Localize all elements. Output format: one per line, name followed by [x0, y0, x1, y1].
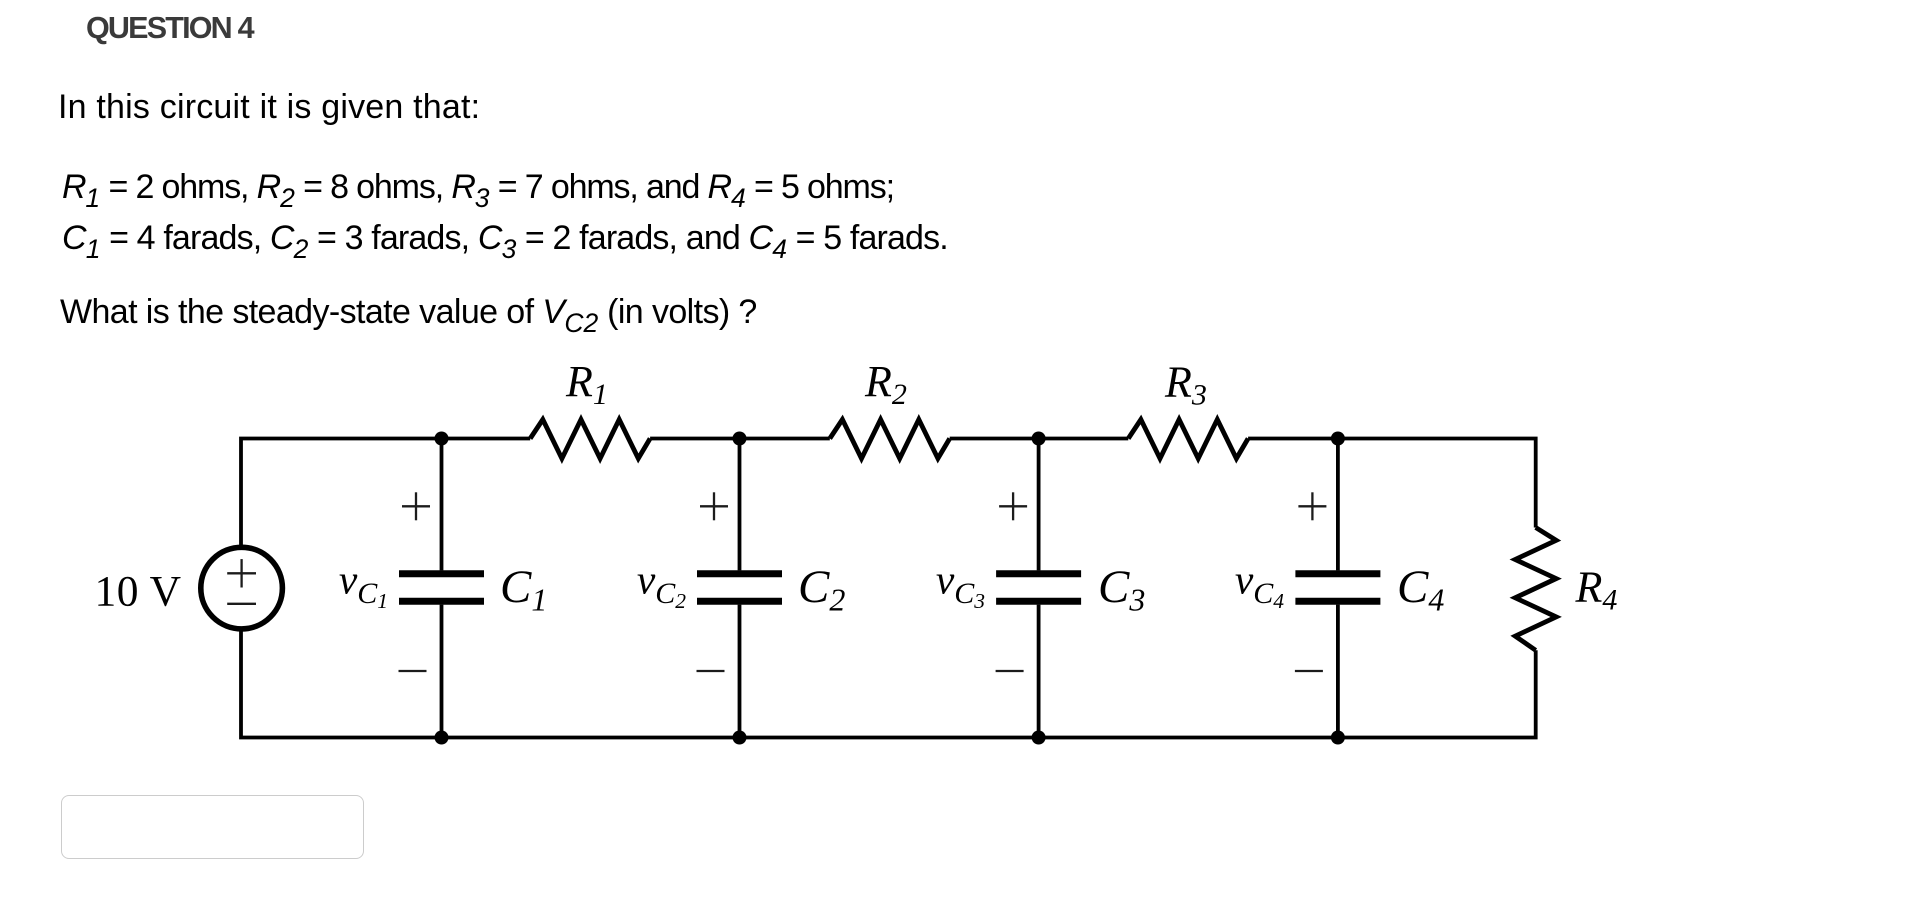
wire top rail segment: R2 to R3: [950, 437, 1129, 441]
svg-text:vC2: vC2: [637, 557, 686, 614]
voltage source V1 10 V: [201, 547, 283, 629]
svg-text:vC4: vC4: [1235, 557, 1284, 614]
wire capacitor C1 stubs: [440, 439, 444, 571]
node dot top 4: [1331, 432, 1345, 446]
answer input box: [61, 795, 364, 859]
svg-text:vC3: vC3: [936, 557, 985, 614]
node dot bottom 3: [1032, 731, 1046, 745]
wire bottom rail: [241, 629, 1536, 738]
node dot top 2: [733, 432, 747, 446]
svg-text:R2: R2: [864, 357, 907, 411]
node dot bottom 2: [733, 731, 747, 745]
svg-text:C1: C1: [500, 561, 547, 618]
node dot bottom 4: [1331, 731, 1345, 745]
C2 minus polarity mark: [697, 670, 725, 672]
resistor R4: [1515, 528, 1556, 651]
C1 plus polarity mark: [402, 505, 430, 507]
C3 minus polarity mark: [996, 670, 1024, 672]
node dot bottom 1: [435, 731, 449, 745]
wire capacitor C4 stubs: [1336, 439, 1340, 571]
svg-text:vC1: vC1: [339, 557, 388, 614]
svg-text:C3: C3: [1098, 561, 1145, 618]
wire top rail segment: R1 to R2: [650, 437, 830, 441]
C1 minus polarity mark: [399, 670, 427, 672]
given values line 1: [62, 170, 894, 204]
resistor R3: [1128, 420, 1248, 459]
question line: [60, 295, 757, 329]
wire capacitor C2 stubs: [738, 439, 742, 571]
svg-text:C4: C4: [1397, 561, 1444, 618]
capacitor C4 plates: [1295, 570, 1380, 577]
capacitor C1 plates: [399, 570, 484, 577]
svg-text:R4: R4: [1575, 563, 1618, 617]
capacitor C2 plates: [697, 570, 782, 577]
svg-text:C2: C2: [798, 561, 845, 618]
wire capacitor C3 stubs: [1037, 439, 1041, 571]
wire top rail segment: left corner to R1: [241, 439, 530, 548]
svg-text:R1: R1: [565, 357, 608, 411]
resistor R1: [530, 420, 650, 459]
intro line: [58, 90, 480, 124]
node dot top 1: [435, 432, 449, 446]
C2 plus polarity mark: [700, 505, 728, 507]
C4 plus polarity mark: [1298, 505, 1326, 507]
capacitor C3 plates: [996, 570, 1081, 577]
resistor R2: [830, 420, 950, 459]
wire top rail segment: R3 to right corner: [1248, 439, 1536, 528]
given values line 2: [62, 221, 948, 255]
source minus polarity mark: [227, 603, 256, 605]
C4 minus polarity mark: [1295, 670, 1323, 672]
question header: [86, 13, 253, 44]
C3 plus polarity mark: [999, 505, 1027, 507]
source plus polarity mark: [227, 559, 256, 604]
svg-text:R3: R3: [1164, 358, 1207, 412]
node dot top 3: [1032, 432, 1046, 446]
svg-text:10 V: 10 V: [95, 568, 182, 616]
